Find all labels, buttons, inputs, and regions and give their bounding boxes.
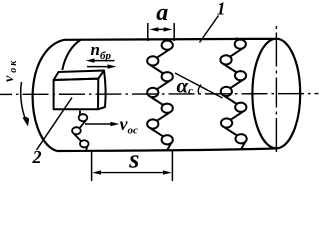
svg-text:1: 1 bbox=[217, 0, 226, 19]
oscillation arrow right bbox=[87, 66, 110, 68]
rotation arrow v_ok arc bbox=[21, 82, 26, 121]
cylinder left end silhouette bbox=[33, 40, 64, 151]
svg-text:s: s bbox=[128, 145, 139, 174]
right end face ellipse bbox=[252, 39, 300, 149]
angle alpha_c reference line bbox=[175, 73, 223, 98]
abrasive stick 2 (box) bbox=[54, 71, 106, 110]
angle alpha_c arc bbox=[198, 85, 201, 94]
axial feed arrow v_os bbox=[85, 123, 113, 125]
leader for 2 bbox=[37, 98, 73, 151]
vertical centerline of end face bbox=[275, 26, 277, 154]
oscillation arrow left bbox=[92, 60, 115, 62]
leader for 1 bbox=[200, 16, 219, 43]
svg-text:a: a bbox=[156, 0, 168, 26]
left end face rim arc bbox=[62, 40, 81, 71]
cylinder bottom outline bbox=[57, 148, 278, 151]
cylinder 1 top outline bbox=[64, 39, 277, 40]
scratch trace wavy under abrasive stick bbox=[72, 111, 88, 152]
dimension s extension lines bbox=[92, 151, 173, 181]
dimension a extension lines bbox=[148, 23, 174, 41]
dimension s line with arrows bbox=[95, 172, 169, 174]
centerline horizontal axis bbox=[0, 93, 319, 96]
svg-text:2: 2 bbox=[32, 147, 42, 167]
helix trace wavy 1 bbox=[147, 39, 173, 151]
helix trace wavy 2 bbox=[220, 38, 246, 150]
dimension a arrows bbox=[153, 28, 169, 30]
